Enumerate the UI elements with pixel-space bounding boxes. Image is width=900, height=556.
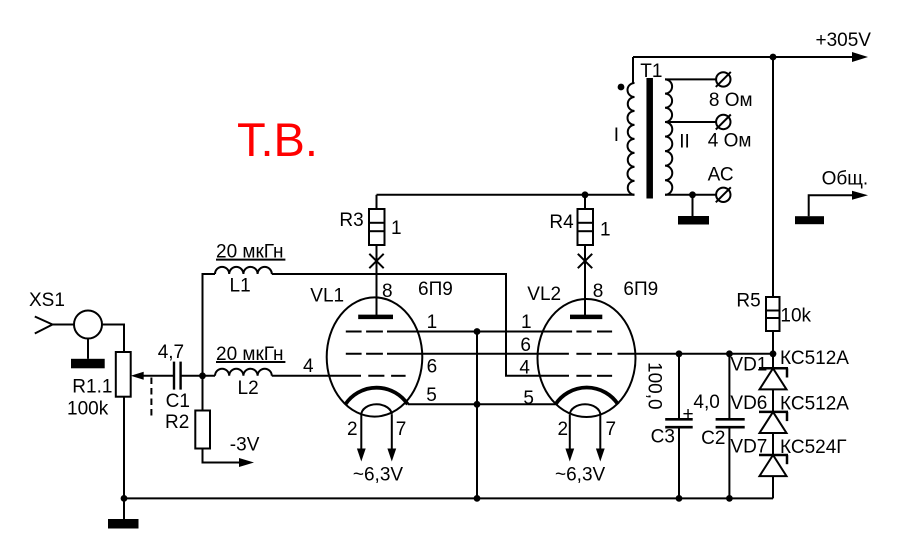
svg-text:C3: C3: [651, 427, 675, 448]
wire tap 8 Ом: [665, 78, 716, 80]
svg-text:7: 7: [396, 419, 407, 440]
svg-text:R5: R5: [736, 290, 760, 311]
tube VL2 grid dashes (pin4 row): [576, 375, 612, 377]
tube VL2 grid dashes (pin1 row): [576, 331, 612, 333]
tube VL2 grid dashes (pin6 row): [576, 353, 612, 355]
bottom rail wire: [124, 497, 773, 499]
Общ. output: [795, 168, 868, 224]
svg-text:R2: R2: [165, 412, 189, 433]
tube VL1 grid dashes (pin4 row): [368, 375, 405, 377]
svg-text:Т.В.: Т.В.: [237, 113, 318, 166]
resistor R4: [549, 195, 610, 245]
wire +305V down to R5: [772, 57, 774, 297]
wire R5 to node: [772, 331, 774, 354]
svg-text:XS1: XS1: [29, 290, 65, 311]
tube VL2 envelope: [538, 299, 636, 417]
transformer T1 secondary upper: [665, 79, 672, 122]
svg-text:L1: L1: [230, 275, 251, 296]
capacitor C2: [693, 354, 744, 499]
node junction diode chain top: [770, 350, 777, 357]
tube VL1 anode: [358, 267, 393, 317]
svg-text:10k: 10k: [780, 305, 811, 326]
wire anode supply rail y195: [377, 194, 635, 196]
wire XS1 to R1.1: [102, 325, 124, 353]
tube VL1 grid dashes (pin6 row): [346, 353, 383, 355]
svg-text:C2: C2: [701, 428, 725, 449]
inductor L2: [215, 344, 285, 399]
svg-text:R3: R3: [339, 210, 363, 231]
resistor R2: [165, 411, 210, 449]
fusible cross R4: [578, 245, 592, 317]
transformer T1 secondary lower: [665, 122, 672, 195]
svg-text:6: 6: [427, 357, 438, 378]
svg-text:КС512А: КС512А: [780, 393, 849, 414]
svg-text:+305V: +305V: [816, 30, 872, 51]
inductor L1: [215, 242, 285, 297]
resistor R3: [339, 195, 401, 245]
svg-text:~6,3V: ~6,3V: [555, 465, 606, 486]
svg-text:6П9: 6П9: [623, 279, 658, 300]
svg-text:L2: L2: [238, 378, 259, 399]
node junction ground bus bottom: [474, 495, 481, 502]
wire ground bus vertical: [476, 332, 478, 499]
ground XS1: [71, 339, 105, 369]
ground secondary: [678, 195, 709, 225]
node junction grid1/ground: [474, 328, 481, 335]
svg-text:1: 1: [427, 312, 438, 333]
phase dot primary: [618, 84, 625, 91]
wire top rail to primary: [632, 57, 634, 83]
svg-text:4 Ом: 4 Ом: [708, 130, 752, 151]
svg-text:6П9: 6П9: [418, 279, 453, 300]
tube VL2 heater: [565, 404, 604, 461]
svg-text:КС524Г: КС524Г: [780, 437, 847, 458]
svg-text:+: +: [683, 404, 694, 425]
svg-text:7: 7: [606, 419, 617, 440]
tube VL2 cathode: [556, 388, 619, 405]
+305V rail: [633, 30, 871, 62]
transformer core: [646, 78, 653, 199]
wiper arrow R1.1: [131, 372, 174, 380]
transformer T1 primary winding: [628, 83, 635, 195]
wire node A up to L1: [203, 274, 216, 376]
svg-text:АС: АС: [708, 165, 734, 186]
terminal АС: [716, 187, 731, 202]
svg-text:5: 5: [523, 388, 534, 409]
node junction C2 bottom: [726, 495, 733, 502]
svg-text:VD7: VD7: [730, 437, 767, 458]
svg-text:Общ.: Общ.: [822, 168, 869, 189]
svg-text:8 Ом: 8 Ом: [709, 90, 753, 111]
node A junction: [199, 372, 206, 379]
svg-text:1: 1: [521, 312, 532, 333]
zener diode VD6: [730, 389, 849, 433]
tube VL2 anode: [570, 267, 602, 317]
node junction C3 top: [676, 350, 683, 357]
tube VL1 grid dashes (pin1 row): [346, 331, 383, 333]
terminal 4 Ом: [708, 115, 752, 152]
node junction +305V: [770, 54, 777, 61]
capacitor C3: [644, 354, 694, 499]
capacitor C1: [158, 342, 190, 412]
wire tap AC: [665, 194, 716, 196]
svg-text:8: 8: [593, 281, 604, 302]
svg-text:VD1: VD1: [730, 355, 767, 376]
connector XS1: [29, 290, 102, 339]
svg-text:-3V: -3V: [230, 435, 260, 456]
fusible cross R3: [369, 245, 383, 317]
svg-text:1: 1: [600, 219, 611, 240]
mechanical link dashes: [150, 378, 152, 418]
wire node A down to R2: [202, 376, 204, 411]
wire R1.1 bottom: [123, 397, 125, 499]
svg-text:8: 8: [382, 281, 393, 302]
svg-text:4: 4: [519, 358, 530, 379]
tube VL1 envelope: [327, 297, 423, 416]
svg-text:VD6: VD6: [730, 393, 767, 414]
svg-text:VL2: VL2: [527, 284, 561, 305]
mid rail wire: [618, 353, 774, 355]
svg-text:4,0: 4,0: [693, 392, 719, 413]
node junction C3 bottom: [676, 495, 683, 502]
svg-text:100,0: 100,0: [644, 362, 665, 410]
zener diode VD1: [730, 348, 849, 390]
zener diode VD7: [730, 433, 846, 498]
svg-text:1: 1: [391, 218, 402, 239]
potentiometer R1.1: [67, 352, 131, 420]
svg-text:R4: R4: [549, 212, 574, 233]
svg-text:VL1: VL1: [310, 285, 344, 306]
svg-text:5: 5: [426, 385, 437, 406]
svg-text:2: 2: [347, 419, 358, 440]
node junction R4 top: [582, 191, 589, 198]
svg-text:I: I: [614, 125, 619, 146]
svg-text:4: 4: [303, 356, 314, 377]
wire tap 4 Ом: [665, 121, 716, 123]
svg-text:100k: 100k: [67, 399, 109, 420]
resistor R5: [736, 290, 811, 331]
terminal 8 Ом: [709, 72, 753, 111]
svg-text:C1: C1: [166, 391, 190, 412]
svg-text:КС512А: КС512А: [780, 348, 849, 369]
node junction cathode/ground: [474, 401, 481, 408]
tube VL1 heater: [357, 404, 396, 461]
ground bottom left: [108, 498, 139, 528]
wire grid1 line VL1-VL2: [387, 331, 572, 333]
svg-text:R1.1: R1.1: [72, 377, 112, 398]
wire L2 to VL1 grid 4: [272, 375, 361, 377]
svg-text:4,7: 4,7: [158, 342, 184, 363]
node junction bottom left: [121, 495, 128, 502]
tube VL1 cathode: [345, 388, 407, 405]
svg-text:2: 2: [558, 419, 569, 440]
wire L1 to VL2 grid 4: [272, 274, 569, 376]
node junction secondary ground: [689, 191, 696, 198]
-3V output arrow: [203, 435, 260, 467]
svg-text:II: II: [679, 132, 690, 153]
wire cathode line VL1-VL2: [408, 403, 556, 405]
svg-text:6: 6: [520, 335, 531, 356]
svg-text:~6,3V: ~6,3V: [353, 465, 404, 486]
wire grid6 line VL1-VL2 to mid rail: [387, 353, 569, 355]
node junction C2 top: [726, 350, 733, 357]
wire C1 to node A: [181, 375, 215, 377]
